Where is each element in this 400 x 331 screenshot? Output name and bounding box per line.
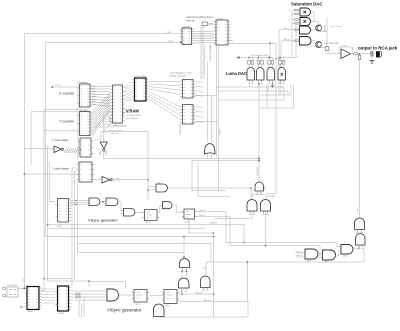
gate GC3 [341, 245, 353, 255]
wire G_mid output [168, 187, 252, 189]
wire left trunk 3 [31, 111, 78, 113]
wire v3 feed [205, 262, 207, 276]
wire mux to trunk [195, 95, 216, 97]
vertical inverter pair above [179, 278, 190, 288]
wire trunk left vertical from top corner [24, 34, 182, 288]
svg-text:HSync generator: HSync generator [108, 308, 142, 313]
wire G3 to FF1 [135, 211, 145, 213]
wire luma collect 100 [219, 99, 285, 101]
svg-text:V.RAM: V.RAM [126, 109, 139, 114]
resistors on hsync lines [76, 293, 80, 295]
wire hsync row loop [159, 302, 249, 318]
and gate G_mid [156, 184, 168, 192]
junction G1-G2 [100, 201, 106, 203]
gate GH 4-input [107, 289, 119, 301]
ground under luma gate 3 [272, 83, 274, 86]
verticals dropping to bottom loop [78, 300, 80, 317]
bus H counter to decode [41, 288, 55, 290]
M1 bottom pins [207, 154, 209, 158]
svg-text:7408: 7408 [324, 261, 328, 263]
wire osc to chip [18, 288, 27, 290]
svg-text:8: 8 [289, 20, 290, 22]
svg-text:Qb: Qb [201, 112, 203, 114]
saturation feed verticals [295, 23, 297, 57]
chip Y scan delay [80, 138, 91, 157]
svg-text:pixel multiplexer: satur.: pixel multiplexer: satur. [170, 72, 193, 75]
wire GH out [119, 294, 135, 296]
mux D2 output wires [195, 106, 200, 108]
svg-text:sync mix: sync mix [113, 181, 121, 183]
svg-text:VGA_Hs: VGA_Hs [199, 214, 206, 217]
wire luma collect 108 [260, 85, 294, 109]
transistor Q1 [316, 25, 322, 31]
gate above chain [180, 259, 190, 268]
wire loop 262 [206, 261, 364, 263]
vertical pixel signal trunks [200, 26, 202, 80]
gate GV4 [163, 202, 173, 209]
wire vgate1 feed vertical [183, 237, 185, 257]
wire trunk 44 to chip [41, 278, 44, 291]
wire G_mid inputs [148, 186, 156, 188]
luma resistor rail [238, 57, 274, 59]
coupling capacitor [370, 51, 372, 57]
flipflop FF2v [184, 209, 195, 219]
wire GC feed 1 [226, 212, 341, 247]
node junction at X ctr input wire [180, 42, 182, 44]
svg-text:V_BLANK: V_BLANK [209, 222, 218, 225]
wire left vertical 31 [30, 112, 32, 165]
wire top pin X counter [78, 82, 85, 84]
flipflop FF1 [145, 210, 158, 221]
svg-text:output to RCA jack: output to RCA jack [358, 45, 398, 50]
junction dots on vsync outputs [75, 200, 76, 201]
wire U2 output 2 [228, 40, 233, 42]
mux D1 output wires [195, 81, 200, 83]
wire left trunk 4 [44, 110, 81, 112]
gate G1 [89, 198, 100, 206]
svg-text:74688: 74688 [58, 313, 64, 315]
svg-text:composite blank: composite blank [108, 129, 122, 132]
gate S3 [300, 26, 311, 34]
luma weight resistors 2 [257, 61, 260, 65]
wire drop to luma rail [269, 43, 271, 57]
wire second vsync horizontal [49, 228, 205, 230]
wire GC2 to GC3 [336, 251, 342, 256]
svg-text:SAT_2: SAT_2 [284, 27, 289, 30]
wire vga_vs riser [247, 262, 249, 302]
wire Ysd out to pixel line [93, 132, 148, 201]
gate M2 [255, 182, 264, 191]
svg-text:VRAM_BUS_D: VRAM_BUS_D [114, 125, 128, 128]
wires VR1 VR2 [357, 232, 359, 234]
luma gate L3 [267, 68, 275, 80]
gate GC2 [323, 250, 336, 260]
wire FH2 outputs right [179, 293, 213, 295]
svg-text:Qa: Qa [201, 86, 203, 88]
inverter triangle down [100, 142, 107, 149]
wire FH1 to FH2 [149, 295, 164, 297]
svg-text:2-PIXEL SIGNALS: 2-PIXEL SIGNALS [209, 43, 212, 62]
svg-text:7408: 7408 [307, 260, 311, 262]
svg-text:to comp: to comp [113, 177, 121, 180]
op-amp U7 [341, 49, 351, 59]
FF2v bottom drop [189, 219, 214, 233]
luma weight resistors 3 [268, 61, 271, 65]
wire vertical to inverter [103, 115, 105, 142]
wire luma collect 95 [260, 85, 291, 96]
sat input trunk verticals [278, 30, 280, 95]
op-amp feedback loop [339, 47, 353, 54]
wire GC1 to GC2 [318, 253, 323, 255]
wire vsync bottom horizontal [48, 225, 245, 243]
V1 input bubble [183, 256, 185, 258]
crystal oscillator box [7, 287, 18, 297]
vsync chip input from above-left [50, 162, 56, 202]
bus SRAM to pixel mux [149, 81, 180, 83]
svg-text:(sat) = chroma: (sat) = chroma [330, 25, 342, 28]
svg-text:Y counter: Y counter [59, 119, 75, 123]
svg-text:VGA_Vs: VGA_Vs [296, 254, 303, 257]
svg-text:75: 75 [366, 49, 368, 51]
svg-text:14.318 MHz: 14.318 MHz [7, 285, 17, 287]
svg-text:7404: 7404 [203, 268, 207, 270]
vsync chip bottom drop [59, 222, 61, 225]
svg-text:COMP: COMP [358, 208, 360, 214]
wire luma collect 91 [219, 91, 289, 95]
wire M1 top feed [207, 62, 209, 142]
S3 input wire [279, 29, 300, 31]
svg-text:Qa: Qa [201, 91, 203, 93]
wire vsync box loop 1 [192, 161, 226, 191]
svg-text:CHROMA SIGNAL: CHROMA SIGNAL [324, 42, 339, 45]
wire M1 top feed 2 [211, 96, 213, 143]
svg-text:3.58M: 3.58M [166, 32, 171, 34]
wire GC3 out [353, 247, 360, 250]
open pin circle [20, 306, 22, 308]
wire GC feed 2 [230, 217, 324, 258]
svg-text:CHROMA: CHROMA [256, 166, 259, 176]
wire B2 out right [111, 179, 148, 181]
svg-text:2x 62256 32Kx8: 2x 62256 32Kx8 [126, 115, 141, 117]
svg-text:ADDR: ADDR [109, 116, 112, 122]
gate INV A [247, 200, 257, 212]
svg-text:BURST: BURST [168, 41, 174, 43]
svg-text:s: s [230, 39, 231, 41]
luma weight resistors 4 [279, 61, 282, 65]
wires linking vertical gates [181, 270, 183, 278]
svg-text:2N3904: 2N3904 [325, 24, 327, 32]
gate G2 [106, 198, 118, 206]
gate S4 [300, 37, 312, 46]
svg-text:VGA_Vs: VGA_Vs [199, 209, 206, 212]
svg-text:7408: 7408 [343, 256, 347, 258]
wire hsync feed horizontal [48, 281, 90, 287]
wire clk to X counter [52, 86, 78, 88]
FF1 out to gate GV4 [157, 206, 162, 212]
wire sat input vertical A [291, 10, 293, 57]
wire G2 to G3 [118, 202, 124, 211]
wire long mixer line 158 [104, 157, 259, 159]
S4 input wire [281, 40, 300, 42]
emitter resistor [325, 47, 329, 51]
ground below cap [371, 57, 373, 61]
wire second line to mixer [192, 160, 259, 162]
hatched delay box [64, 149, 82, 154]
gate G3 [124, 209, 136, 217]
wire second corner trunk [45, 43, 182, 237]
wire transistor to opamp [321, 30, 328, 32]
svg-text:Y clock scaler: Y clock scaler [52, 166, 69, 170]
svg-text:VSync generator: VSync generator [88, 218, 118, 223]
luma gate L1 [247, 68, 255, 80]
svg-text:pixel clk: pixel clk [55, 84, 62, 86]
buffer B2 [102, 177, 110, 184]
inv outputs down [214, 212, 252, 219]
wire hsync feed 2 [44, 278, 72, 280]
chip H decode bold [58, 286, 69, 311]
chip mux D2 [183, 105, 194, 125]
wire op-amp output [351, 53, 372, 55]
wire cap to jack [373, 53, 376, 55]
FF2v output wires with labels [197, 211, 226, 213]
svg-text:Qa: Qa [201, 82, 203, 84]
svg-text:Qb: Qb [201, 117, 203, 119]
wire mid horizontal 236 [45, 236, 213, 238]
chip VRAM address latch [113, 85, 123, 123]
S1 S2 outputs to transistor [311, 12, 319, 25]
wire left vertical 44 [43, 110, 45, 279]
luma gate L4 [278, 68, 286, 80]
svg-text:BURST: BURST [220, 127, 222, 135]
wire branch 243 [78, 244, 211, 262]
vertical gate VR2 [356, 234, 366, 246]
svg-text:Qb: Qb [201, 107, 203, 109]
wire scaler feed 174 [24, 173, 77, 175]
svg-text:4-bit ctr: 4-bit ctr [186, 18, 195, 22]
gate S1 [300, 8, 311, 16]
resistor left of osc [3, 288, 6, 290]
wires decode to gate GH [71, 290, 107, 292]
svg-text:4069: 4069 [106, 151, 108, 155]
M2 to inverter pair wires [252, 191, 258, 200]
resistor 75ohm on output [354, 53, 358, 55]
wire vertical 213 trunk [213, 237, 215, 318]
gate GC1 [305, 249, 318, 259]
vertical luma to mixer [258, 84, 260, 182]
gate S2 [300, 18, 311, 26]
wire scaler drop 77 [77, 182, 79, 252]
svg-text:Luma DAC: Luma DAC [226, 71, 247, 76]
svg-text:16: 16 [289, 10, 291, 12]
chip vsync counter [58, 199, 69, 223]
vertical gate VR1 [355, 218, 365, 229]
svg-text:4069: 4069 [265, 186, 267, 190]
svg-text:X counter: X counter [59, 92, 75, 96]
svg-text:4069: 4069 [100, 151, 102, 155]
buffer B1 [54, 146, 62, 153]
wire U2 output long to luma [228, 43, 276, 193]
wire GV4 out to FF2v [173, 205, 184, 213]
resistor on down trunk [358, 56, 361, 60]
svg-text:SAT_3: SAT_3 [284, 38, 289, 41]
wire feedback vertical right [363, 247, 365, 263]
wire V2 output down [181, 288, 183, 294]
flipflop FH2 [164, 290, 177, 304]
power rail vertical [326, 17, 328, 52]
svg-text:+75R weights 300R: +75R weights 300R [250, 54, 268, 57]
wire hsync box lines [89, 282, 126, 290]
svg-text:2x 4069: 2x 4069 [268, 196, 276, 198]
svg-text:or 1x 128Kx8: or 1x 128Kx8 [126, 118, 139, 120]
wire y counter enable [44, 130, 78, 132]
S3 S4 outputs [311, 29, 316, 31]
RCA jack [376, 51, 380, 57]
wire branch 252 [78, 251, 184, 253]
gate INV B [261, 200, 271, 212]
svg-text:Saturation DAC: Saturation DAC [291, 2, 322, 7]
wires to G1 [71, 200, 89, 202]
wire luma collect 87 [217, 87, 285, 100]
chip Y clock scaler [79, 162, 92, 182]
wires U1 to U2 bus [194, 31, 214, 33]
X counter out bus to VRAM [92, 85, 110, 88]
GC1 input stubs [296, 252, 306, 254]
S1 input resistors [295, 9, 298, 11]
gate GH2 below [154, 304, 165, 317]
wire vsync box loop 2 [198, 162, 230, 196]
svg-text:7410: 7410 [164, 207, 168, 209]
Y bus hatch extension down [95, 109, 111, 129]
junction dot under luma gates [258, 83, 260, 85]
luma weight resistors 1 [248, 61, 251, 65]
flipflop FH1 [134, 290, 147, 303]
wire inverter output down [103, 151, 105, 158]
leader line to net label [104, 122, 112, 131]
or gate M1 [205, 144, 216, 154]
svg-text:74121: 74121 [145, 222, 151, 224]
svg-text:SRAM DATA: SRAM DATA [179, 123, 182, 135]
S2 input resistors [295, 19, 298, 21]
svg-text:addr mux: addr mux [110, 132, 120, 135]
bus VRAM to SRAM [125, 82, 132, 87]
component R-C above [202, 22, 208, 26]
luma gate L2 [257, 68, 265, 80]
chip H counter bold [27, 287, 39, 310]
svg-text:during color burst: during color burst [170, 74, 187, 77]
Y counter out bus crossing fan [92, 93, 110, 113]
transistor Q2 [316, 42, 322, 48]
svg-text:VGA_Vs: VGA_Vs [203, 299, 210, 302]
wire left vertical 47 [47, 146, 49, 281]
chip mux D1 [183, 80, 194, 99]
svg-text:74121: 74121 [135, 304, 141, 306]
wire buffer input [24, 148, 54, 150]
long trunk down right side [359, 54, 361, 218]
left trunk verticals to bottom chips [71, 168, 73, 286]
svg-text:Y scan delay: Y scan delay [52, 138, 69, 142]
svg-text:VGA_Hs: VGA_Hs [195, 291, 202, 294]
